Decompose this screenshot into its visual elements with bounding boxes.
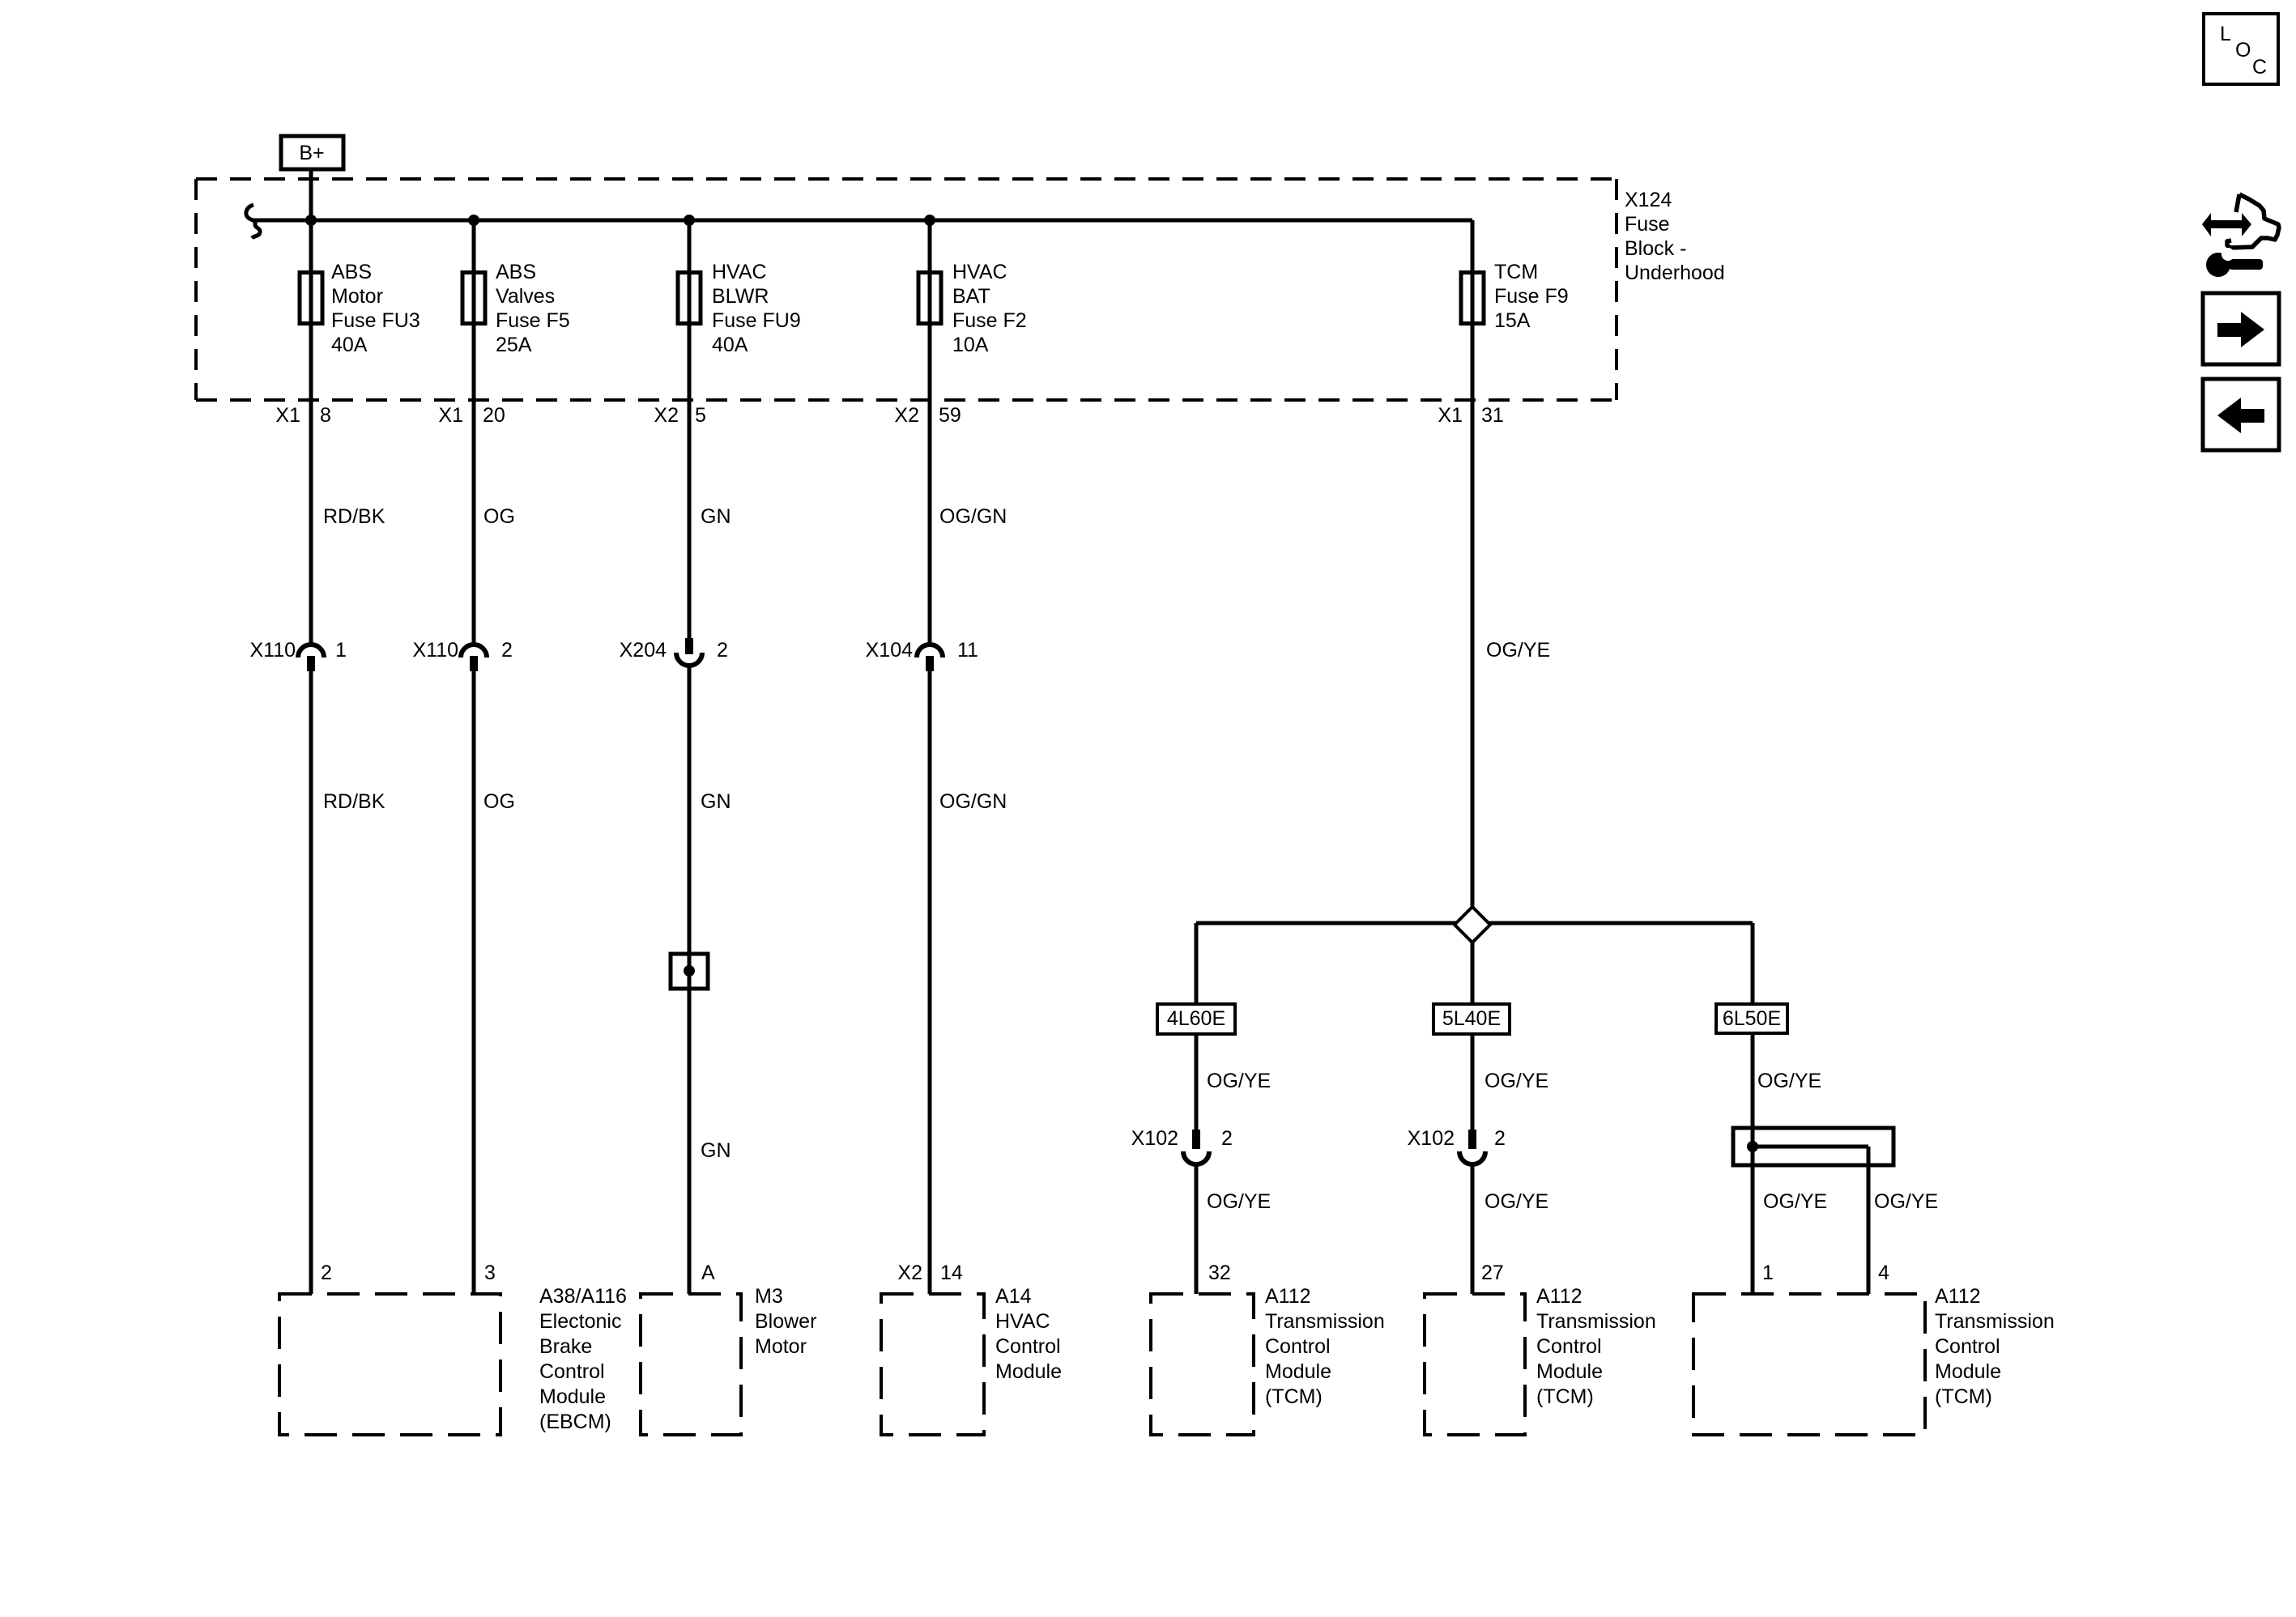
- svg-text:Module: Module: [1536, 1360, 1603, 1383]
- svg-text:Fuse F5: Fuse F5: [496, 309, 570, 332]
- navigation box arrow left: [2203, 379, 2279, 450]
- svg-text:20: 20: [483, 404, 505, 427]
- svg-text:Motor: Motor: [755, 1335, 807, 1358]
- svg-text:GN: GN: [701, 505, 731, 528]
- splice S-hook at bus start: [246, 205, 260, 238]
- svg-text:(TCM): (TCM): [1536, 1385, 1594, 1408]
- svg-text:Transmission: Transmission: [1536, 1310, 1656, 1333]
- svg-text:X2: X2: [897, 1262, 922, 1284]
- svg-text:14: 14: [940, 1262, 963, 1284]
- svg-text:C: C: [2252, 56, 2267, 79]
- svg-text:HVAC: HVAC: [712, 261, 767, 283]
- junction block on blower motor wire: [671, 954, 708, 989]
- svg-text:Module: Module: [1265, 1360, 1331, 1383]
- fuse F5 label: [496, 261, 570, 356]
- svg-text:4: 4: [1878, 1262, 1889, 1284]
- svg-text:Electonic: Electonic: [539, 1310, 621, 1333]
- svg-text:X2: X2: [894, 404, 919, 427]
- svg-text:A112: A112: [1265, 1285, 1311, 1308]
- svg-text:OG/YE: OG/YE: [1486, 639, 1550, 662]
- module M3 blower motor (dashed box): [641, 1294, 741, 1435]
- svg-text:X102: X102: [1131, 1127, 1178, 1150]
- wire RD/BK feed upper (fuse FU3 circuit): [309, 220, 313, 1294]
- svg-text:X1: X1: [438, 404, 463, 427]
- module M3 blower motor label: [755, 1285, 816, 1358]
- module A38/A116 EBCM label: [539, 1285, 627, 1433]
- svg-text:X102: X102: [1408, 1127, 1455, 1150]
- svg-text:X110: X110: [249, 639, 296, 662]
- svg-text:X104: X104: [866, 639, 913, 662]
- svg-text:B+: B+: [299, 142, 324, 164]
- fuse F5 ABS Valves 25A: [462, 273, 485, 324]
- svg-text:A: A: [701, 1262, 715, 1284]
- svg-text:RD/BK: RD/BK: [323, 505, 386, 528]
- svg-text:1: 1: [335, 639, 347, 662]
- wire TCM pin 4 branch: [1867, 1147, 1871, 1294]
- svg-text:25A: 25A: [496, 334, 532, 356]
- svg-text:HVAC: HVAC: [952, 261, 1007, 283]
- wire OG/YE feed (TCM fuse F9 circuit): [1471, 220, 1475, 1294]
- svg-text:Block -: Block -: [1625, 237, 1686, 260]
- svg-text:L: L: [2220, 23, 2231, 45]
- junction on bus at HVAC BLWR fuse: [684, 215, 695, 226]
- svg-text:59: 59: [939, 404, 961, 427]
- module A112 TCM 5L40E label: [1536, 1285, 1656, 1408]
- svg-text:OG/YE: OG/YE: [1485, 1070, 1548, 1092]
- wire OG feed (fuse F5 circuit): [472, 220, 476, 1294]
- svg-text:Motor: Motor: [331, 285, 383, 308]
- junction on bus at HVAC BAT fuse: [924, 215, 935, 226]
- navigation box arrow right: [2203, 293, 2279, 364]
- pin X1 8 (fuse block output, ABS Motor): [275, 404, 331, 427]
- fuse FU9 label: [712, 261, 801, 356]
- svg-text:Fuse F9: Fuse F9: [1494, 285, 1569, 308]
- connector X204 pin 2: [620, 638, 728, 666]
- fuse F9 label: [1494, 261, 1569, 332]
- svg-text:32: 32: [1208, 1262, 1231, 1284]
- wire 4L60E branch: [1195, 923, 1199, 1294]
- svg-text:Control: Control: [1265, 1335, 1331, 1358]
- wire 6L50E branch: [1751, 923, 1755, 1294]
- svg-text:Module: Module: [995, 1360, 1062, 1383]
- svg-text:Fuse: Fuse: [1625, 213, 1670, 236]
- svg-text:X204: X204: [620, 639, 667, 662]
- svg-text:5L40E: 5L40E: [1442, 1007, 1501, 1030]
- svg-text:TCM: TCM: [1494, 261, 1538, 283]
- pin X2 5 (fuse block output, HVAC BLWR): [654, 404, 706, 427]
- svg-text:X110: X110: [412, 639, 458, 662]
- module A14 HVAC control module (dashed box): [881, 1294, 984, 1435]
- svg-text:A112: A112: [1935, 1285, 1981, 1308]
- wire GN feed (fuse FU9 circuit): [688, 220, 692, 1294]
- svg-text:OG/YE: OG/YE: [1757, 1070, 1821, 1092]
- fuse F2 HVAC BAT 10A: [918, 273, 941, 324]
- svg-text:O: O: [2235, 39, 2251, 62]
- svg-text:Brake: Brake: [539, 1335, 592, 1358]
- svg-text:X2: X2: [654, 404, 679, 427]
- connector X104 pin 11: [866, 639, 978, 671]
- LOC reference box: [2204, 14, 2278, 84]
- svg-text:Control: Control: [539, 1360, 605, 1383]
- svg-text:5: 5: [695, 404, 706, 427]
- junction on bus at ABS Motor fuse: [305, 215, 317, 226]
- svg-text:GN: GN: [701, 790, 731, 813]
- svg-text:Fuse F2: Fuse F2: [952, 309, 1027, 332]
- svg-text:X1: X1: [275, 404, 300, 427]
- svg-text:2: 2: [1494, 1127, 1506, 1150]
- connector X102 pin 2 (5L40E): [1408, 1127, 1506, 1164]
- svg-text:M3: M3: [755, 1285, 783, 1308]
- svg-text:Fuse FU9: Fuse FU9: [712, 309, 801, 332]
- svg-text:3: 3: [484, 1262, 496, 1284]
- svg-text:OG/GN: OG/GN: [939, 505, 1007, 528]
- svg-text:11: 11: [957, 639, 978, 662]
- connector X102 pin 2 (4L60E): [1131, 1127, 1233, 1164]
- wire B+ lead: [309, 169, 313, 220]
- splice diamond S-point: [1455, 907, 1490, 943]
- svg-text:X124: X124: [1625, 189, 1672, 211]
- pin X2 59 (fuse block output, HVAC BAT): [894, 404, 961, 427]
- svg-text:Valves: Valves: [496, 285, 555, 308]
- svg-text:Control: Control: [995, 1335, 1061, 1358]
- svg-text:40A: 40A: [712, 334, 748, 356]
- splice jumper wire inside splice block: [1753, 1145, 1868, 1149]
- fuse FU9 HVAC BLWR 40A: [678, 273, 701, 324]
- fuse block X124 boundary (dashed): [196, 179, 1617, 400]
- svg-text:X1: X1: [1438, 404, 1463, 427]
- svg-text:Underhood: Underhood: [1625, 262, 1725, 284]
- svg-text:OG: OG: [483, 790, 515, 813]
- pin X1 20 (fuse block output, ABS Valves): [438, 404, 505, 427]
- svg-text:2: 2: [321, 1262, 332, 1284]
- svg-text:(TCM): (TCM): [1935, 1385, 1992, 1408]
- svg-text:40A: 40A: [331, 334, 368, 356]
- module A112 TCM 6L50E label: [1935, 1285, 2055, 1408]
- svg-text:Transmission: Transmission: [1265, 1310, 1385, 1333]
- svg-text:Control: Control: [1935, 1335, 2000, 1358]
- svg-text:Fuse FU3: Fuse FU3: [331, 309, 420, 332]
- svg-text:OG/YE: OG/YE: [1207, 1070, 1271, 1092]
- svg-text:10A: 10A: [952, 334, 989, 356]
- svg-text:2: 2: [717, 639, 728, 662]
- svg-text:(EBCM): (EBCM): [539, 1411, 611, 1433]
- transmission tag 6L50E: [1716, 1004, 1787, 1033]
- svg-text:ABS: ABS: [331, 261, 372, 283]
- svg-text:15A: 15A: [1494, 309, 1531, 332]
- svg-text:OG/YE: OG/YE: [1763, 1190, 1827, 1213]
- svg-text:GN: GN: [701, 1139, 731, 1162]
- svg-text:BLWR: BLWR: [712, 285, 769, 308]
- svg-text:OG/YE: OG/YE: [1207, 1190, 1271, 1213]
- fuse FU3 label: [331, 261, 420, 356]
- connector X110 pin 1: [249, 639, 346, 671]
- svg-text:27: 27: [1481, 1262, 1504, 1284]
- svg-text:Module: Module: [1935, 1360, 2001, 1383]
- vehicle icon double arrow: [2202, 213, 2251, 236]
- svg-text:31: 31: [1481, 404, 1504, 427]
- module A38/A116 EBCM (dashed box): [279, 1294, 501, 1435]
- svg-text:6L50E: 6L50E: [1723, 1007, 1781, 1030]
- fuse FU3 ABS Motor 40A: [300, 273, 322, 324]
- module A14 HVAC control module label: [995, 1285, 1062, 1383]
- svg-text:8: 8: [320, 404, 331, 427]
- module A112 TCM 6L50E (dashed box): [1693, 1294, 1925, 1435]
- module A112 TCM 4L60E (dashed box): [1151, 1294, 1254, 1435]
- connector X110 pin 2: [412, 639, 512, 671]
- svg-text:Control: Control: [1536, 1335, 1602, 1358]
- svg-text:2: 2: [1221, 1127, 1233, 1150]
- svg-text:OG/YE: OG/YE: [1874, 1190, 1938, 1213]
- fuse F2 label: [952, 261, 1027, 356]
- svg-text:Blower: Blower: [755, 1310, 816, 1333]
- svg-text:A112: A112: [1536, 1285, 1582, 1308]
- X124 fuse block label: [1625, 189, 1725, 284]
- transmission tag 4L60E: [1157, 1004, 1235, 1034]
- junction on bus at ABS Valves fuse: [468, 215, 479, 226]
- wire OG/GN feed (fuse F2 circuit): [928, 220, 932, 1294]
- transmission tag 5L40E: [1433, 1004, 1510, 1034]
- vehicle icon car outline: [2227, 194, 2279, 248]
- svg-text:OG/GN: OG/GN: [939, 790, 1007, 813]
- power node B+: [281, 136, 343, 169]
- svg-text:A38/A116: A38/A116: [539, 1285, 627, 1308]
- svg-text:OG: OG: [483, 505, 515, 528]
- module A112 TCM 5L40E (dashed box): [1425, 1294, 1525, 1435]
- module A112 TCM 4L60E label: [1265, 1285, 1385, 1408]
- svg-text:Transmission: Transmission: [1935, 1310, 2055, 1333]
- svg-text:RD/BK: RD/BK: [323, 790, 386, 813]
- splice block on 6L50E branch: [1733, 1128, 1893, 1165]
- fuse F9 TCM 15A: [1461, 273, 1484, 324]
- bus wire inside fuse block: [253, 219, 1472, 223]
- svg-text:2: 2: [501, 639, 513, 662]
- branch wire from splice to 4L60E and 6L50E: [1196, 921, 1753, 926]
- svg-text:HVAC: HVAC: [995, 1310, 1050, 1333]
- pin X2 14 (HVAC control module): [897, 1262, 962, 1284]
- svg-text:ABS: ABS: [496, 261, 536, 283]
- svg-text:OG/YE: OG/YE: [1485, 1190, 1548, 1213]
- svg-text:(TCM): (TCM): [1265, 1385, 1323, 1408]
- pin X1 31 (fuse block output, TCM): [1438, 404, 1503, 427]
- svg-text:A14: A14: [995, 1285, 1032, 1308]
- svg-text:1: 1: [1762, 1262, 1774, 1284]
- svg-text:BAT: BAT: [952, 285, 990, 308]
- vehicle icon wrench: [2206, 248, 2263, 277]
- svg-text:4L60E: 4L60E: [1167, 1007, 1225, 1030]
- svg-text:Module: Module: [539, 1385, 606, 1408]
